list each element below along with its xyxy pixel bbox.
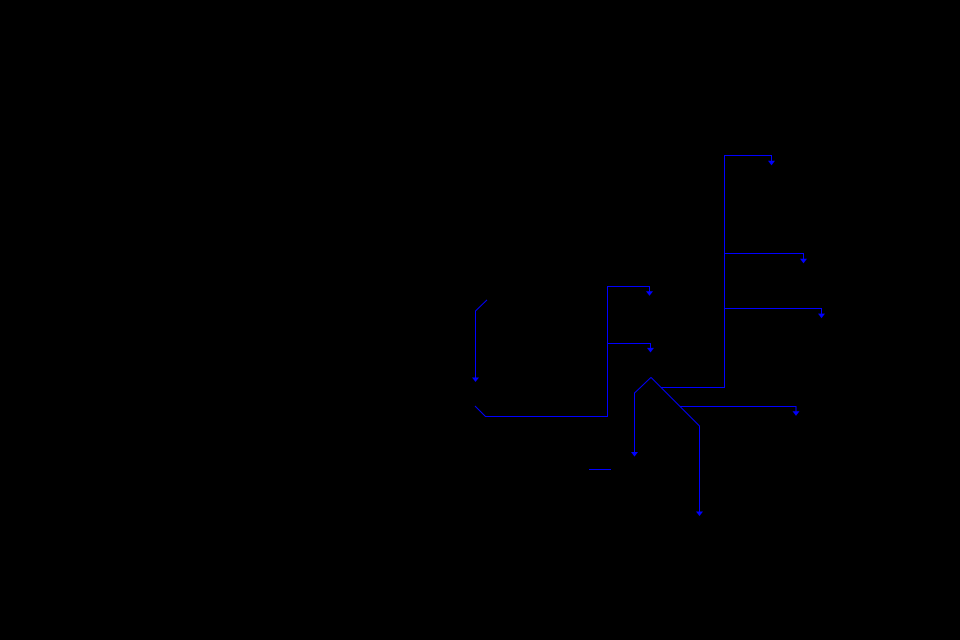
arrowhead of E8 pointing down at (796,416) bbox=[793, 411, 800, 416]
wire edge E3: apex (651,377.4) down-left diagonal then vertical, arrow at (634.5,456.5) bbox=[635, 377, 652, 452]
arrowhead of E2b pointing down at (650.5,352.5) bbox=[647, 348, 654, 353]
arrowhead of E2a pointing down at (649.5,296) bbox=[646, 291, 653, 296]
wire edge E8: branch off diagonal at (680.5,406.5), right, arrow at (796,416) bbox=[681, 407, 797, 412]
arrowhead of E4 pointing down at (699.5,516) bbox=[696, 512, 703, 517]
wire edge E5: branch off diagonal at (661.5,387.5), right to trunk x=724.5, up to y=155.5, right, arrow at (771.5,165) bbox=[662, 156, 772, 388]
arrowhead of E5 pointing down at (771.5,165) bbox=[768, 161, 775, 166]
wire edge E1: diagonal from upper node down to vertical, arrow into node at (475.5,382) bbox=[476, 300, 488, 378]
wire edge E2a: from node (475,406) right then up trunk x=607.5, branch to arrow at (649.5,296) bbox=[475, 287, 650, 417]
wire edge E4: apex (651,377.4) down-right 45° diagonal then long vertical, arrow at (699.5,516) bbox=[651, 377, 700, 511]
arrowhead of E6 pointing down at (803.5,263.3) bbox=[800, 259, 807, 264]
wire edge E2b: branch off trunk x=607.5 at y=343.5 to arrow at (650.5,352.5) bbox=[608, 344, 651, 349]
arrowhead of E1 pointing down at (475.5,382) bbox=[472, 378, 479, 383]
arrowhead of E7 pointing down at (821.5,318.1) bbox=[818, 314, 825, 319]
wire edge E9: short horizontal dash between two adjacent nodes at y=469.5 bbox=[589, 469, 611, 471]
wire edge E6: branch off trunk x=724.5 at y=253.5, right, arrow at (803.5,263.3) bbox=[725, 254, 804, 259]
arrowhead of E3 pointing down at (634.5,456.5) bbox=[631, 452, 638, 457]
wire edge E7: branch off trunk x=724.5 at y=308.5, right, arrow at (821.5,318.1) bbox=[725, 309, 822, 314]
